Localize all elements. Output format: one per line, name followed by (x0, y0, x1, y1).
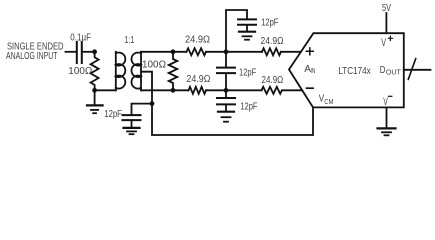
svg-text:0.1µF: 0.1µF (70, 33, 91, 44)
svg-text:24.9Ω: 24.9Ω (185, 35, 210, 46)
svg-text:V: V (383, 96, 388, 108)
svg-text:D: D (380, 65, 386, 76)
svg-text:100Ω: 100Ω (68, 66, 92, 77)
svg-text:IN: IN (311, 66, 316, 75)
svg-text:1:1: 1:1 (124, 35, 134, 46)
svg-text:12pF: 12pF (240, 101, 257, 112)
svg-text:LTC174x: LTC174x (338, 66, 370, 77)
svg-text:24.9Ω: 24.9Ω (261, 36, 284, 47)
svg-text:OUT: OUT (386, 67, 402, 76)
svg-text:100Ω: 100Ω (142, 59, 166, 70)
svg-text:12pF: 12pF (239, 68, 256, 79)
svg-text:CM: CM (324, 97, 333, 106)
svg-text:24.9Ω: 24.9Ω (186, 74, 210, 85)
svg-text:24.9Ω: 24.9Ω (262, 75, 284, 86)
svg-text:ANALOG INPUT: ANALOG INPUT (6, 51, 58, 62)
svg-text:12pF: 12pF (261, 18, 278, 29)
svg-text:5V: 5V (382, 3, 391, 14)
svg-text:12pF: 12pF (104, 109, 122, 120)
svg-text:V: V (381, 37, 386, 49)
